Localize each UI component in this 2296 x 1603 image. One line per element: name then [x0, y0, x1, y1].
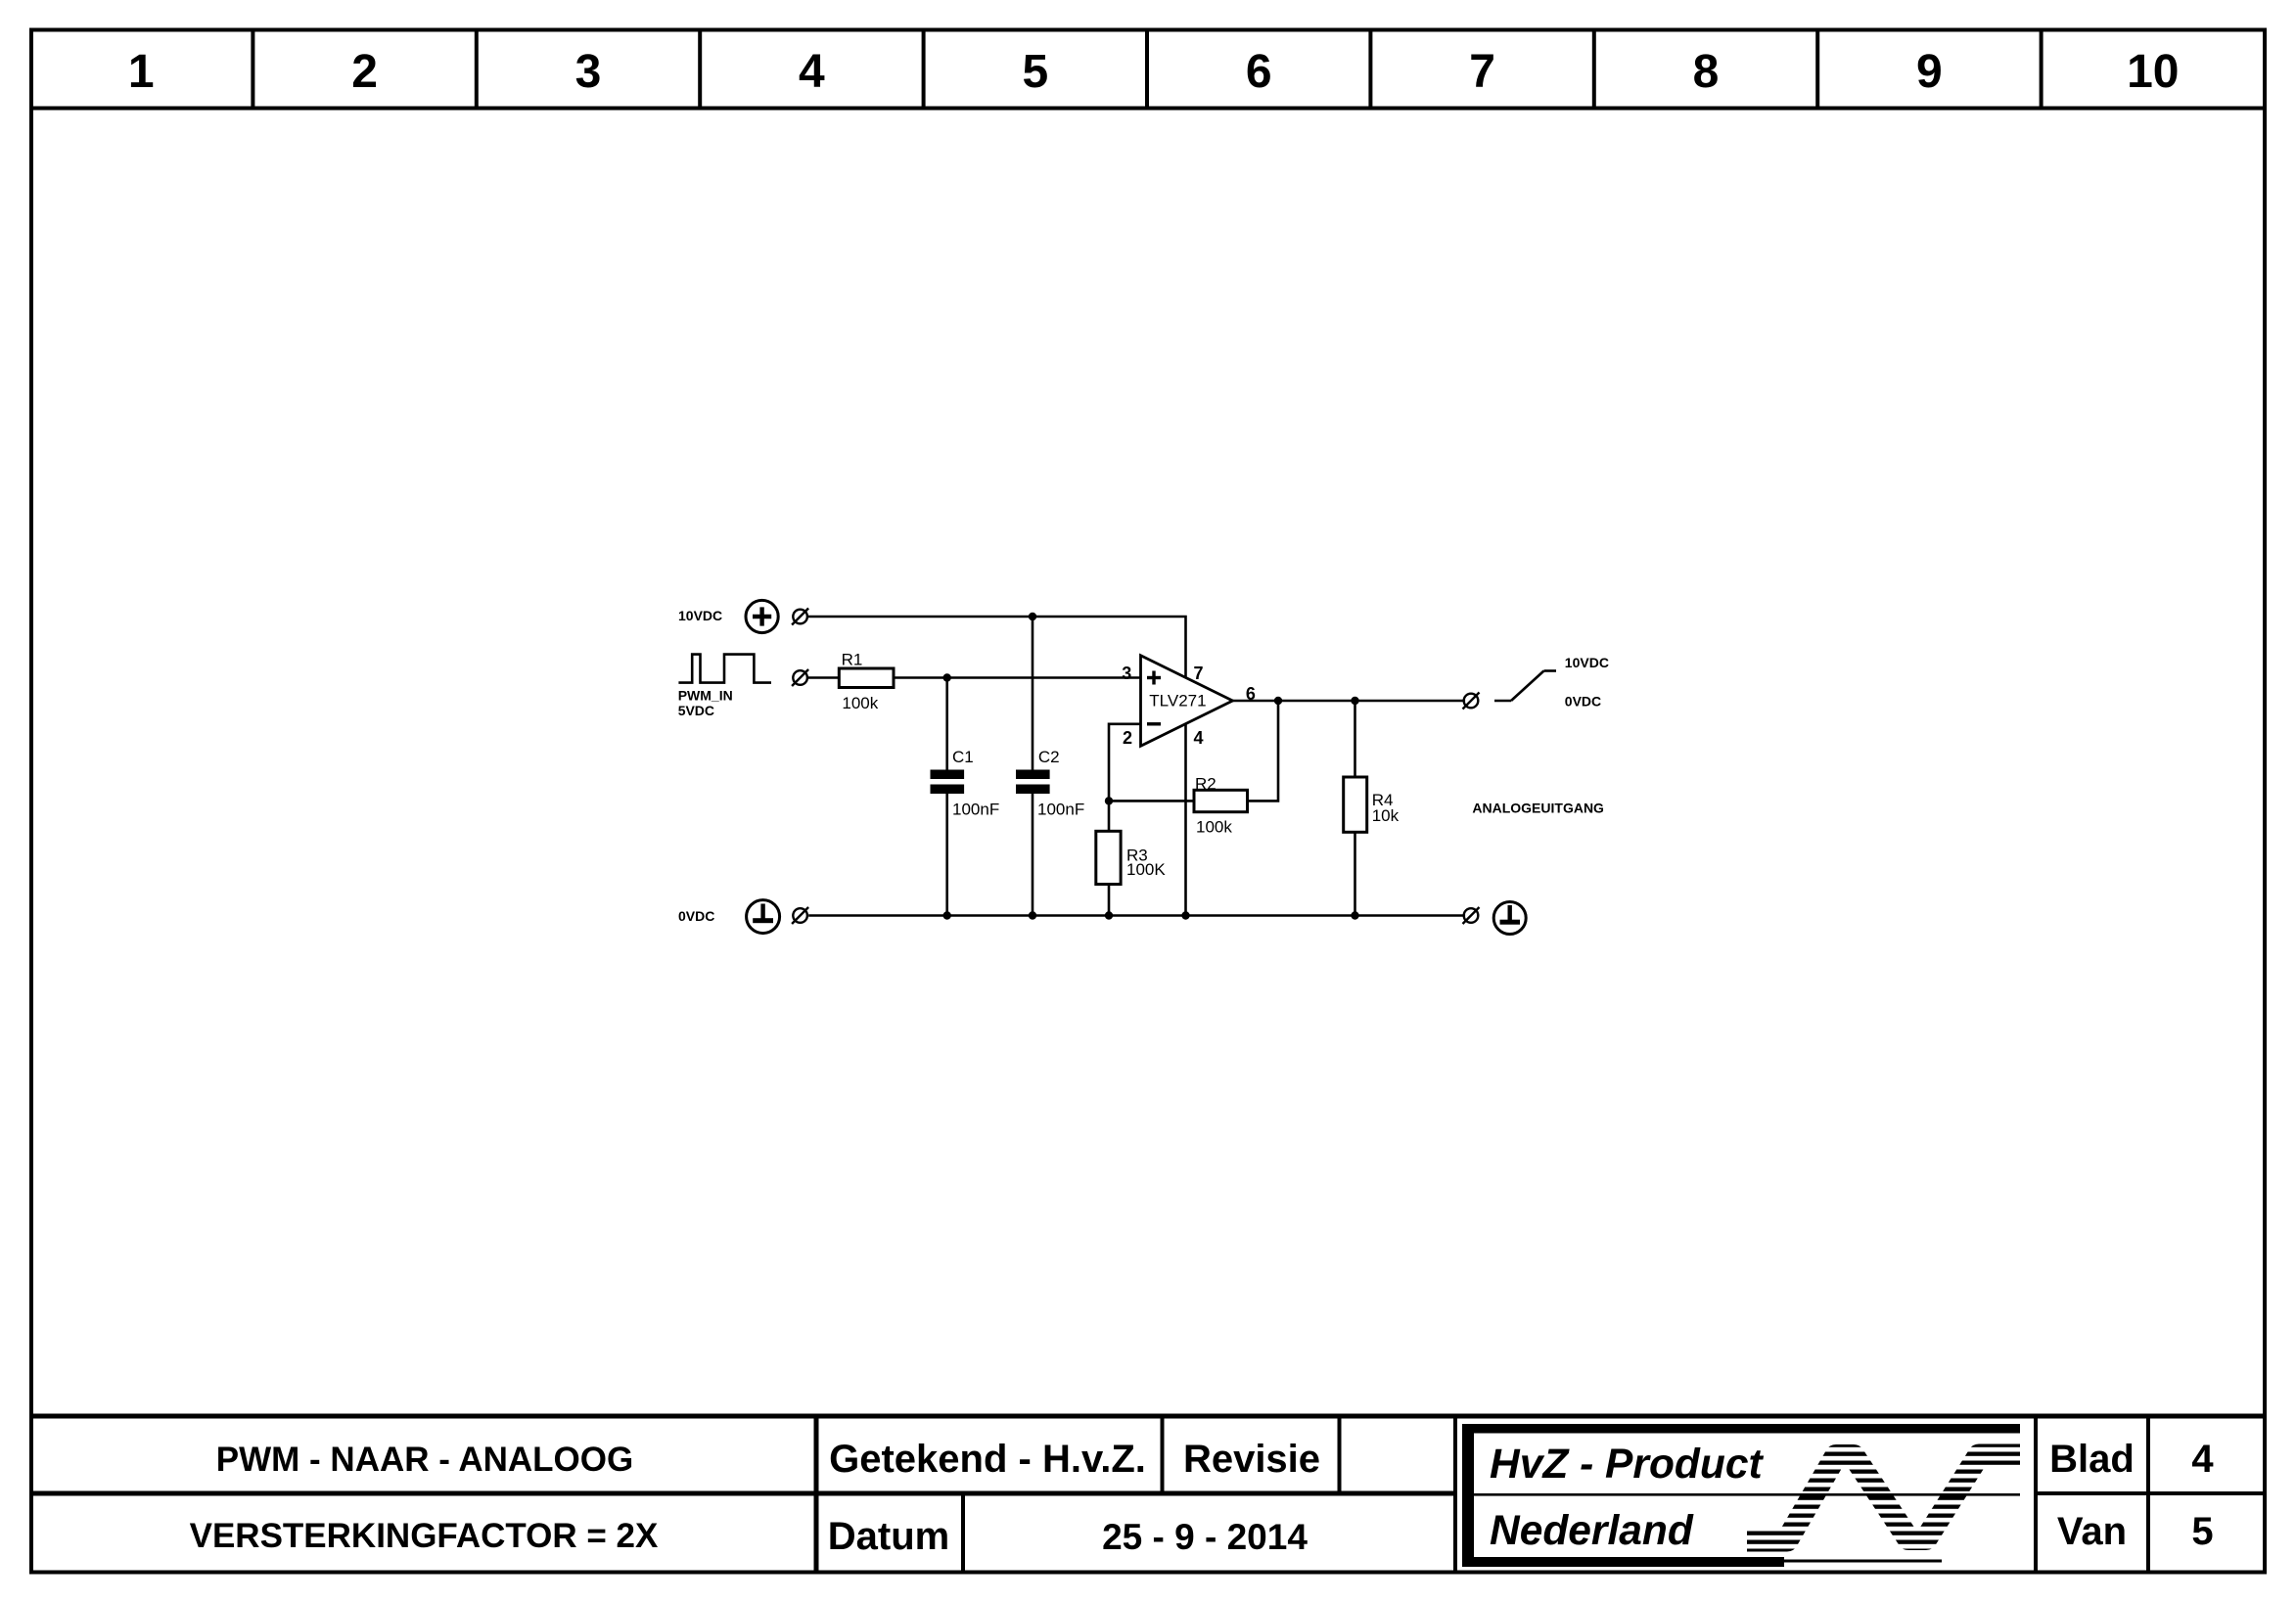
svg-text:VERSTERKINGFACTOR = 2X: VERSTERKINGFACTOR = 2X — [190, 1517, 659, 1555]
svg-text:4: 4 — [1194, 728, 1204, 748]
svg-text:2: 2 — [351, 46, 378, 98]
svg-text:100nF: 100nF — [952, 801, 999, 819]
wire 10VDC top rail — [808, 617, 1186, 676]
wire PWM input to R1 — [808, 676, 840, 679]
svg-text:10VDC: 10VDC — [678, 608, 722, 623]
wire R2 to inverting node — [1109, 800, 1194, 802]
junction feedback on output — [1274, 697, 1282, 705]
svg-text:100nF: 100nF — [1037, 801, 1084, 819]
svg-text:3: 3 — [575, 46, 602, 98]
svg-text:Blad: Blad — [2049, 1438, 2135, 1481]
resistor R3 — [1096, 831, 1121, 884]
junction pin 4 on 0VDC rail — [1181, 911, 1189, 919]
junction C1 on 0VDC rail — [943, 911, 951, 919]
svg-text:PWM_IN: PWM_IN — [678, 688, 733, 704]
capacitor C2 — [1016, 770, 1050, 780]
svg-text:0VDC: 0VDC — [678, 908, 714, 924]
svg-text:Getekend - H.v.Z.: Getekend - H.v.Z. — [829, 1438, 1146, 1481]
capacitor C1 — [931, 770, 965, 780]
svg-text:2: 2 — [1123, 728, 1132, 748]
svg-text:Nederland: Nederland — [1490, 1508, 1694, 1554]
svg-text:7: 7 — [1469, 46, 1495, 98]
svg-text:4: 4 — [2191, 1438, 2214, 1481]
svg-text:10: 10 — [2127, 46, 2179, 98]
switch range symbol at output — [1494, 671, 1556, 702]
junction inverting node — [1105, 797, 1113, 804]
svg-text:0VDC: 0VDC — [1565, 694, 1601, 710]
resistor R1 — [839, 668, 894, 688]
svg-text:6: 6 — [1246, 46, 1272, 98]
junction C1 on PWM net — [943, 673, 951, 681]
connector pad 10VDC — [792, 609, 808, 625]
svg-text:7: 7 — [1194, 664, 1204, 683]
op-amp U1 TLV271 body — [1141, 656, 1233, 747]
svg-text:R1: R1 — [842, 650, 863, 668]
svg-text:TLV271: TLV271 — [1149, 692, 1206, 710]
wire C2 top lead — [1032, 617, 1034, 770]
svg-text:ANALOGEUITGANG: ANALOGEUITGANG — [1472, 801, 1604, 816]
svg-text:HvZ - Product: HvZ - Product — [1490, 1442, 1764, 1488]
svg-text:5: 5 — [2191, 1510, 2213, 1553]
wire C1 bottom lead — [945, 794, 948, 916]
junction C2 on 10VDC rail — [1029, 613, 1036, 620]
svg-text:8: 8 — [1693, 46, 1720, 98]
wire op-amp pin 2 to inverting node — [1109, 724, 1141, 832]
svg-text:5: 5 — [1022, 46, 1048, 98]
resistor R4 — [1344, 777, 1367, 832]
svg-text:100k: 100k — [842, 694, 878, 712]
svg-text:3: 3 — [1122, 664, 1131, 683]
junction R4 on 0VDC rail — [1351, 911, 1358, 919]
svg-text:Revisie: Revisie — [1183, 1438, 1320, 1481]
svg-text:Datum: Datum — [828, 1515, 949, 1558]
svg-text:5VDC: 5VDC — [678, 703, 714, 718]
wire op-amp pin 4 to 0VDC rail — [1184, 725, 1187, 916]
svg-text:10VDC: 10VDC — [1565, 655, 1609, 670]
logo hatched N wave — [1747, 1455, 2020, 1540]
svg-text:100k: 100k — [1196, 817, 1232, 836]
svg-text:6: 6 — [1246, 684, 1256, 704]
svg-text:1: 1 — [128, 46, 155, 98]
connector pad PWM_IN — [792, 669, 808, 686]
svg-text:9: 9 — [1916, 46, 1943, 98]
wire R3 bottom to 0VDC rail — [1108, 885, 1111, 916]
wire output to R4 top — [1354, 701, 1356, 777]
connector pad 0VDC left — [792, 907, 808, 924]
connector pad analog output — [1463, 693, 1480, 710]
wire R1 to op-amp pin 3 — [894, 676, 1141, 679]
svg-text:Van: Van — [2057, 1510, 2127, 1553]
svg-text:C1: C1 — [952, 748, 974, 766]
wire op-amp output rail — [1233, 700, 1464, 703]
ground symbol left — [747, 900, 780, 934]
svg-text:PWM - NAAR - ANALOOG: PWM - NAAR - ANALOOG — [216, 1441, 633, 1479]
svg-text:C2: C2 — [1038, 748, 1060, 766]
wire C1 top lead — [945, 678, 948, 770]
junction R3 on 0VDC rail — [1105, 911, 1113, 919]
resistor R2 — [1194, 790, 1248, 811]
ground symbol right — [1493, 902, 1526, 935]
wire 0VDC bottom rail — [810, 914, 1464, 917]
svg-text:25 - 9 - 2014: 25 - 9 - 2014 — [1102, 1517, 1308, 1557]
title block grid — [29, 1416, 2267, 1573]
wire R4 bottom to 0VDC rail — [1354, 832, 1356, 915]
svg-text:100K: 100K — [1126, 860, 1166, 879]
logo box HvZ-Product — [1462, 1424, 2020, 1567]
connector pad 0VDC right — [1463, 907, 1480, 924]
svg-text:4: 4 — [799, 46, 825, 98]
power symbol 10VDC plus circle — [746, 600, 778, 632]
wire feedback from output to R2 — [1248, 701, 1279, 801]
svg-text:10k: 10k — [1372, 806, 1400, 825]
wire C2 bottom lead — [1032, 794, 1034, 916]
PWM waveform symbol — [678, 655, 771, 683]
svg-text:R2: R2 — [1195, 774, 1217, 793]
junction R4 on output — [1351, 697, 1358, 705]
op-amp inverting - mark — [1147, 722, 1161, 725]
junction C2 on 0VDC rail — [1029, 911, 1036, 919]
op-amp non-inverting + mark — [1147, 671, 1161, 685]
